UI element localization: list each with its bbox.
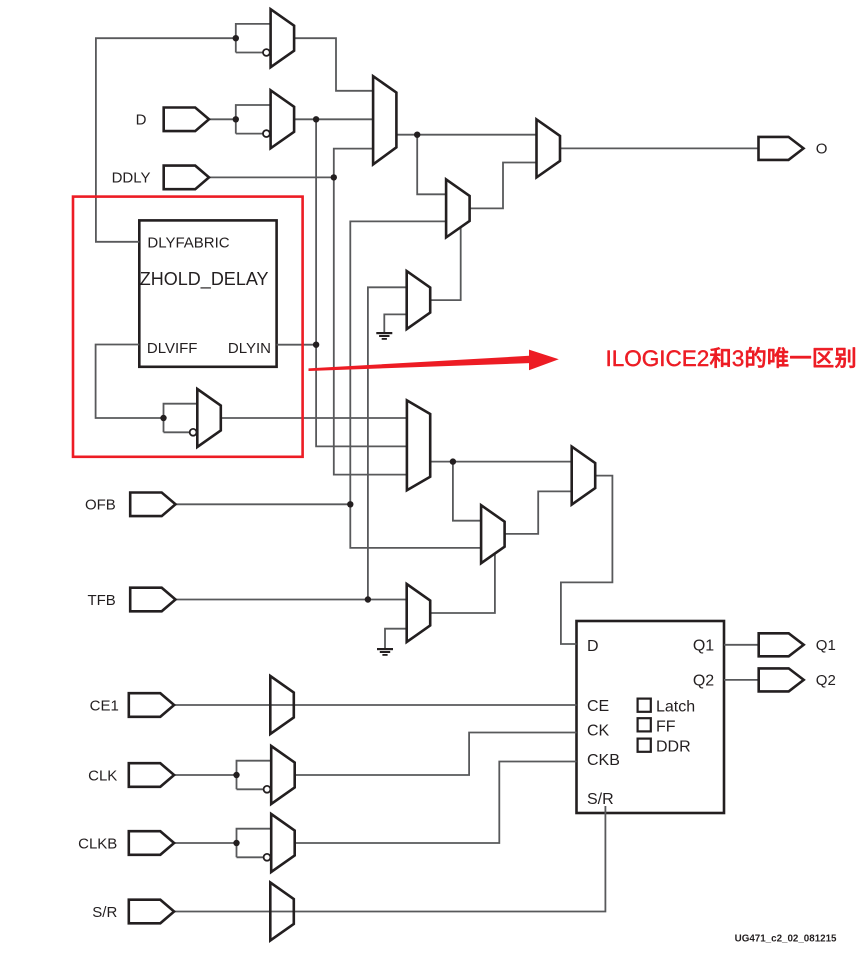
node: CLKB line junction [233, 840, 239, 846]
red highlight box around ZHOLD_DELAY [73, 197, 303, 457]
input buffer TFB [130, 588, 175, 612]
mux B1 (O path 3-input select) [373, 76, 396, 164]
svg-text:Latch: Latch [656, 699, 695, 716]
svg-text:CE: CE [587, 698, 609, 715]
node: M1 input junction [233, 35, 239, 41]
node: DLYIN junction [313, 342, 319, 348]
mux M2 (D invert select) [271, 90, 295, 148]
mux M1 (D/DDR invert select) [271, 9, 295, 67]
svg-text:FF: FF [656, 719, 676, 736]
mux M6 (TFB/GND select upper) [407, 271, 431, 329]
mux M5 (O output select) [537, 119, 561, 177]
checkbox DDR [638, 739, 651, 752]
svg-text:Q2: Q2 [816, 672, 836, 689]
node: DDLY bus junction [331, 174, 337, 180]
wire: DLYFABRIC feedback net to mux M1 input [96, 38, 236, 242]
svg-text:CLK: CLK [88, 767, 117, 784]
flip-flop block U2 [577, 621, 725, 813]
svg-text:DDR: DDR [656, 739, 691, 756]
svg-text:D: D [136, 112, 147, 129]
node: OFB bus junction [347, 501, 353, 507]
wire: mux B2 output to mux M8 input 1 [430, 461, 572, 463]
node: CLK line junction [233, 772, 239, 778]
wire: CLK input line [174, 774, 237, 776]
wire: Q2 output line [724, 679, 759, 681]
mux M4 (O feedback select) [446, 179, 470, 237]
mux M7 (OFB select) [481, 505, 505, 563]
svg-text:S/R: S/R [92, 904, 117, 921]
mux M8 (final D select) [572, 447, 596, 505]
wire: DDLY bus down to mux B2 input 3 [334, 177, 407, 474]
wire: mux M9 output to mux M7 bottom [430, 554, 495, 613]
svg-text:Q1: Q1 [816, 637, 836, 654]
checkbox Latch [638, 699, 651, 712]
wire: TFB input line [174, 599, 407, 601]
mux M3 (ZHOLD DLVIFF invert select) [197, 389, 221, 447]
wire: mux M11 output to flip-flop CK [295, 733, 577, 776]
wire: mux M11 inverter loop [237, 761, 272, 790]
inverter bubble mux M12 [264, 854, 271, 861]
wire: node D vertical bus to mux B2 input 2 [316, 119, 407, 446]
wire: mux M3 output to mux B2 input 1 [221, 417, 407, 419]
wire: mux M8 output to flip-flop D input [561, 476, 613, 644]
input buffer OFB [130, 493, 175, 517]
mux B2 (D path 3-input select) [407, 400, 430, 490]
wire: node B1 output down to mux M4 input 1 [417, 135, 446, 195]
node: M3 input junction [160, 415, 166, 421]
mux M10 (CE1 select) [270, 676, 294, 734]
inverter bubble mux M11 [264, 786, 271, 793]
svg-text:DLVIFF: DLVIFF [147, 340, 198, 357]
svg-text:Q2: Q2 [693, 673, 714, 690]
inverter bubble mux M3 [190, 429, 197, 436]
node: B1 output junction [414, 132, 420, 138]
svg-text:D: D [587, 638, 599, 655]
wire: mux M12 output to flip-flop CKB [295, 762, 577, 844]
wire: OFB input line [174, 503, 351, 505]
node: B2 output junction [450, 458, 456, 464]
svg-text:Q1: Q1 [693, 638, 714, 655]
input buffer CLK [129, 763, 174, 787]
svg-text:TFB: TFB [87, 592, 115, 609]
node: D bus junction [313, 116, 319, 122]
wire: DDLY input line [210, 176, 334, 178]
wire: mux M1 output to big mux B1 input 1 [294, 38, 373, 91]
svg-text:DLYFABRIC: DLYFABRIC [147, 235, 229, 252]
mux M12 (CLKB invert select) [271, 814, 295, 872]
wire: node B2 output down to mux M7 input 1 [453, 462, 481, 521]
wire: mux M9 ground leg [385, 629, 407, 648]
red annotation text ILOGICE2和3的唯一区别 [608, 347, 855, 368]
mux M13 (S/R select) [270, 883, 294, 941]
wire: DLYIN output to D bus junction [277, 344, 317, 346]
wire: mux M4 output to mux M5 input 2 [470, 163, 537, 209]
svg-text:S/R: S/R [587, 791, 614, 808]
node: D line junction [233, 116, 239, 122]
svg-text:CE1: CE1 [90, 697, 119, 714]
wire: big mux B1 output to mux M5 input 1 [396, 134, 536, 136]
output buffer Q2 [759, 668, 804, 691]
wire: OFB bus up to mux M4 input 2 [350, 221, 446, 504]
wire: mux M7 output to mux M8 input 2 [505, 491, 572, 534]
wire: TFB bus up to mux M6 input 1 [368, 287, 407, 599]
wire: DDLY bus up to big mux B1 input 3 [334, 149, 373, 178]
wire: mux M2 inverter loop [236, 105, 271, 134]
inverter bubble mux M2 [263, 130, 270, 137]
wire: mux M6 ground leg [384, 314, 406, 332]
red annotation arrow [309, 350, 559, 371]
svg-text:DDLY: DDLY [112, 170, 151, 187]
mux M9 (TFB/GND select lower) [407, 584, 431, 642]
input buffer S/R [129, 900, 174, 924]
wire: mux M5 output to O buffer [560, 147, 759, 149]
wire: CLKB input line [174, 842, 237, 844]
svg-text:CK: CK [587, 722, 610, 739]
svg-text:CLKB: CLKB [78, 835, 117, 852]
wire: mux M2 output to big mux B1 input 2 [294, 118, 373, 120]
svg-text:DLYIN: DLYIN [228, 340, 271, 357]
wire: OFB bus down to mux M7 input 2 [350, 504, 481, 548]
svg-text:O: O [816, 141, 828, 158]
wire: DLVIFF loop to mux M3 input [96, 345, 164, 419]
ground symbol (mux M6) [376, 332, 392, 340]
svg-text:OFB: OFB [85, 497, 116, 514]
input buffer CE1 [129, 693, 174, 717]
mux M11 (CLK invert select) [271, 746, 295, 804]
node: TFB bus junction [365, 596, 371, 602]
output buffer O [759, 137, 804, 160]
svg-text:CKB: CKB [587, 752, 620, 769]
ZHOLD_DELAY block U1 [139, 220, 276, 366]
output buffer Q1 [759, 633, 804, 656]
wire: CE1 line to flip-flop CE [174, 704, 577, 706]
svg-text:UG471_c2_02_081215: UG471_c2_02_081215 [735, 934, 837, 945]
wire: mux M6 output to mux M4 bottom [430, 228, 461, 301]
wire: Q1 output line [724, 644, 759, 646]
svg-text:ZHOLD_DELAY: ZHOLD_DELAY [140, 269, 269, 290]
wire: mux M12 inverter loop [237, 829, 272, 858]
input buffer D [164, 108, 209, 132]
wire: mux M1 inverter loop [236, 24, 271, 53]
wire: S/R line to flip-flop S/R [174, 806, 605, 912]
checkbox FF [638, 718, 651, 731]
wire: mux M3 inverter loop [164, 404, 198, 433]
ground symbol (mux M9) [377, 648, 393, 656]
input buffer DDLY [164, 166, 209, 190]
inverter bubble mux M1 [263, 49, 270, 56]
wire: D input line [210, 118, 236, 120]
input buffer CLKB [129, 831, 174, 855]
